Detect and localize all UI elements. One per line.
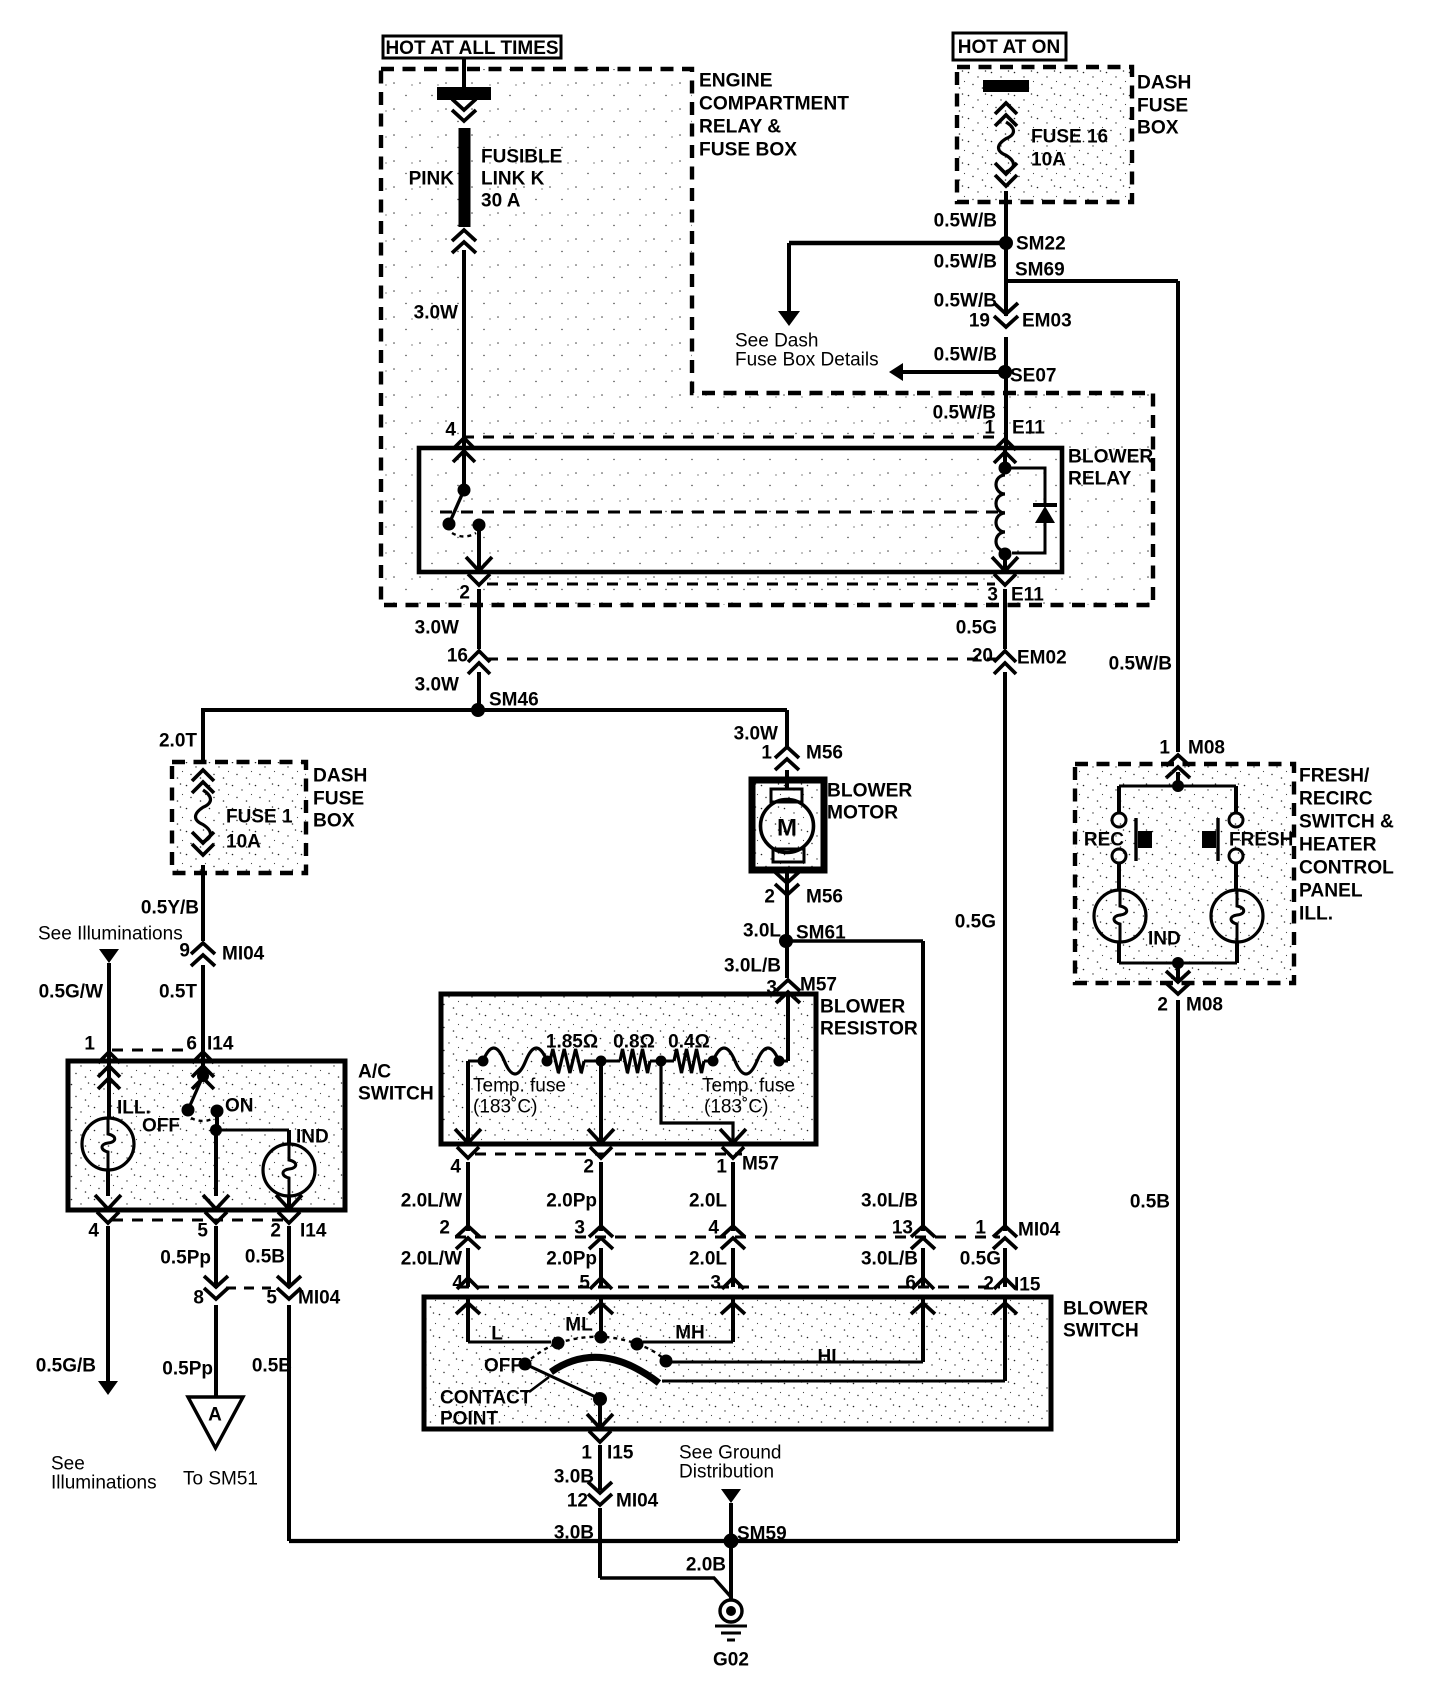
svg-text:Temp. fuse: Temp. fuse [702, 1076, 795, 1097]
A/C switch contact [182, 1070, 224, 1121]
label BLOWER MOTOR [827, 781, 912, 824]
E11 pins 2-3 dashed line [487, 583, 995, 586]
svg-text:RESISTOR: RESISTOR [820, 1019, 918, 1040]
label ML [565, 1315, 593, 1336]
svg-text:2.0L/W: 2.0L/W [401, 1249, 462, 1270]
svg-text:RELAY: RELAY [1068, 469, 1131, 490]
L position wire [468, 1297, 565, 1350]
FRESH indicator lamp [1211, 890, 1263, 942]
label 0.5W/B [934, 291, 997, 312]
wire SM22 to SM69 [1004, 243, 1008, 281]
wire 0.5W/B SM69 to M08 pin1 [1176, 281, 1180, 752]
svg-text:SWITCH &: SWITCH & [1299, 812, 1394, 833]
label 0.5W/B [1109, 654, 1172, 675]
wire into switch and top junction [1119, 772, 1236, 792]
wiper common link to pin1 [525, 1364, 607, 1429]
svg-text:1: 1 [975, 1218, 986, 1239]
connector I14 pins 1,6 [84, 1034, 233, 1063]
svg-text:MH: MH [675, 1323, 705, 1344]
svg-text:1: 1 [761, 743, 772, 764]
svg-text:MI04: MI04 [1018, 1220, 1061, 1241]
svg-text:SE07: SE07 [1010, 366, 1056, 387]
label 3.0B [554, 1467, 594, 1488]
engine compartment relay &amp; fuse box enclosure [381, 69, 1153, 605]
label 0.5G [956, 618, 997, 639]
wire 3.0W relay pin2 to EM02 pin16 [477, 589, 481, 649]
wires M57 to MI04 [468, 1162, 733, 1231]
svg-text:I14: I14 [300, 1221, 327, 1242]
svg-text:2.0L: 2.0L [689, 1191, 727, 1212]
resistor pin3 riser [779, 994, 788, 1061]
connector M08 pin1 [1159, 738, 1225, 778]
label FUSIBLE LINK K 30 A [481, 147, 562, 212]
svg-text:ENGINE: ENGINE [699, 71, 773, 92]
connector MI04 pins 8,5 [193, 1276, 340, 1309]
resistor 0.8 ohm [601, 1060, 620, 1063]
connector MI04 pins 2,3,4,13,1 [439, 1218, 1060, 1249]
svg-text:30 A: 30 A [481, 191, 521, 212]
REC pushbutton actuator [1136, 818, 1152, 861]
left pin4 drop [468, 1061, 483, 1144]
svg-text:16: 16 [447, 646, 468, 667]
svg-text:L: L [491, 1324, 503, 1345]
chevrons above box bottom [995, 163, 1017, 186]
svg-text:0.5W/B: 0.5W/B [934, 291, 997, 312]
svg-text:0.5G/B: 0.5G/B [36, 1356, 96, 1377]
label 2.0T [159, 731, 197, 752]
svg-text:FRESH: FRESH [1229, 830, 1293, 851]
svg-text:3.0W: 3.0W [415, 618, 459, 639]
connector EM02 pin20 [972, 646, 1067, 674]
svg-text:Illuminations: Illuminations [51, 1473, 157, 1494]
note See Dash Fuse Box Details [735, 331, 879, 371]
wire 0.5G relay pin3 to EM02 pin20 [1003, 589, 1007, 649]
wire 3.0W SM46 to M56 pin1 [785, 710, 789, 748]
relay clamp diode [1005, 468, 1057, 553]
wire fuse16 to SM22 [1004, 191, 1008, 243]
connector M56 pin1 [761, 743, 843, 770]
label PINK [409, 169, 455, 190]
FRESH switch branch [1229, 786, 1243, 890]
resistor exit arrows pins 4,2,1 [455, 1129, 746, 1158]
ML position wire [595, 1297, 608, 1344]
svg-text:BOX: BOX [313, 811, 355, 832]
wire 3.0B to MI04 pin12 [598, 1445, 602, 1490]
svg-text:MOTOR: MOTOR [827, 803, 898, 824]
relay pin3 exit [992, 554, 1018, 585]
svg-text:2: 2 [459, 583, 470, 604]
label 3.0L [743, 921, 781, 942]
svg-text:OFF: OFF [142, 1116, 180, 1137]
svg-text:SM22: SM22 [1016, 234, 1066, 255]
svg-text:BLOWER: BLOWER [827, 781, 912, 802]
label 0.5T [159, 982, 197, 1003]
svg-text:0.5T: 0.5T [159, 982, 197, 1003]
svg-text:PINK: PINK [409, 169, 455, 190]
svg-text:5: 5 [266, 1288, 277, 1309]
node pin2 drop [596, 1056, 607, 1145]
svg-text:CONTROL: CONTROL [1299, 858, 1394, 879]
wire 3.0W EM02 to SM46 [477, 672, 481, 710]
svg-text:SM59: SM59 [737, 1524, 787, 1545]
HOT AT ALL TIMES banner [383, 36, 561, 59]
common feed wire from pin2 [662, 1297, 1005, 1381]
svg-text:0.8Ω: 0.8Ω [613, 1032, 655, 1053]
svg-text:19: 19 [969, 311, 990, 332]
wire 0.5B pin2 to MI04 pin5 [287, 1226, 291, 1288]
svg-text:0.5W/B: 0.5W/B [934, 252, 997, 273]
svg-text:I14: I14 [207, 1034, 234, 1055]
note See Illuminations (bottom) [51, 1454, 157, 1494]
label 0.5Y/B [141, 898, 199, 919]
MH position wire [631, 1297, 734, 1351]
fresh/recirc switch dashed box [1075, 764, 1294, 983]
wire 0.5B MI04 pin5 to ground bus [287, 1305, 291, 1541]
label 0.5W/B [934, 345, 997, 366]
wire from banner to supply bar [462, 58, 466, 88]
svg-text:2.0Pp: 2.0Pp [546, 1191, 597, 1212]
wire to node 2 [584, 1060, 601, 1063]
svg-text:3.0W: 3.0W [415, 675, 459, 696]
FRESH pushbutton actuator [1202, 818, 1218, 861]
svg-text:POINT: POINT [440, 1409, 498, 1430]
label REC [1084, 830, 1124, 851]
blower relay box [419, 448, 1062, 572]
svg-text:DASH: DASH [313, 766, 367, 787]
svg-text:6: 6 [186, 1034, 197, 1055]
svg-text:E11: E11 [1011, 585, 1044, 606]
wiper arc [551, 1357, 659, 1383]
svg-text:2: 2 [270, 1221, 281, 1242]
svg-text:0.5W/B: 0.5W/B [934, 211, 997, 232]
fuse 1 element [192, 770, 214, 855]
svg-text:SM46: SM46 [489, 690, 539, 711]
temp fuse 1 [478, 1048, 553, 1074]
wire 0.5Pp MI04 to A connector [214, 1305, 218, 1397]
label 3.0L/B [724, 956, 781, 977]
node SM46 and distribution wire [201, 690, 787, 717]
svg-text:MI04: MI04 [616, 1491, 659, 1512]
svg-text:FUSE BOX: FUSE BOX [699, 140, 797, 161]
svg-text:ML: ML [565, 1315, 593, 1336]
svg-text:2: 2 [764, 887, 775, 908]
svg-text:M57: M57 [742, 1154, 779, 1175]
svg-text:MI04: MI04 [222, 944, 265, 965]
svg-text:3.0L/B: 3.0L/B [861, 1249, 918, 1270]
label FUSE 16 10A [1031, 127, 1108, 171]
label 3.0W [734, 724, 778, 745]
node SM59 [724, 1524, 787, 1549]
connector I15 pins 4,5,3,6,2 [452, 1273, 1040, 1296]
labels 2.0L/W 2.0Pp 2.0L 3.0L/B [401, 1191, 918, 1212]
svg-text:HEATER: HEATER [1299, 835, 1377, 856]
REC switch branch [1112, 786, 1126, 890]
svg-text:(183˚C): (183˚C) [473, 1097, 537, 1118]
svg-text:FUSE 16: FUSE 16 [1031, 127, 1108, 148]
svg-text:M08: M08 [1188, 738, 1225, 759]
A/C switch box [68, 1061, 345, 1210]
label 3.0W [415, 675, 459, 696]
svg-text:RELAY &: RELAY & [699, 117, 781, 138]
connector EM02 pin16 [447, 646, 490, 674]
svg-text:0.5G: 0.5G [955, 912, 996, 933]
arrow from illuminations [99, 949, 119, 1061]
svg-text:4: 4 [450, 1157, 461, 1178]
wire 0.5G/B pin4 to see illuminations [98, 1226, 118, 1395]
svg-text:BLOWER: BLOWER [1068, 447, 1153, 468]
wire into blower motor [785, 770, 789, 790]
chevrons under bar [995, 103, 1017, 126]
label BLOWER SWITCH [1063, 1299, 1148, 1342]
relay switch contact [443, 448, 486, 572]
connector MI04 pin12 [567, 1482, 659, 1512]
svg-text:0.5W/B: 0.5W/B [1109, 654, 1172, 675]
E11 pin 1 connector [984, 418, 1045, 463]
label DASH FUSE BOX (left) [313, 766, 367, 832]
svg-text:1: 1 [1159, 738, 1170, 759]
svg-text:Temp. fuse: Temp. fuse [473, 1076, 566, 1097]
svg-text:0.5Y/B: 0.5Y/B [141, 898, 199, 919]
ground bus wire [289, 1539, 1178, 1543]
svg-text:EM02: EM02 [1017, 648, 1067, 669]
label 0.5G [955, 912, 996, 933]
svg-text:20: 20 [972, 646, 993, 667]
wire 0.5Pp pin5 to MI04 pin8 [214, 1226, 218, 1288]
wire 0.5B M08 to ground bus [1176, 1000, 1180, 1541]
bottom junction and exit [1119, 942, 1237, 983]
svg-text:HI: HI [818, 1347, 837, 1368]
svg-text:IND: IND [296, 1127, 329, 1148]
svg-text:1: 1 [716, 1157, 727, 1178]
pin6 entry chevrons [192, 1061, 214, 1089]
svg-text:BLOWER: BLOWER [1063, 1299, 1148, 1320]
svg-text:3.0L/B: 3.0L/B [724, 956, 781, 977]
svg-text:0.5W/B: 0.5W/B [934, 345, 997, 366]
svg-text:13: 13 [892, 1218, 913, 1239]
label 0.5Pp [160, 1248, 211, 1269]
label Temp. fuse (183C) right [702, 1076, 795, 1118]
svg-text:1: 1 [984, 418, 995, 439]
label FUSE 1 10A [226, 807, 293, 853]
svg-text:OFF: OFF [484, 1356, 522, 1377]
label 3.0W [415, 618, 459, 639]
wire 3.0W fusible link to relay pin 4 [462, 250, 466, 450]
wire motor to M56 pin2 [785, 870, 789, 906]
note To SM51 [183, 1469, 258, 1490]
labels OFF ON [142, 1096, 254, 1137]
label DASH FUSE BOX (right) [1137, 73, 1191, 139]
svg-text:0.5B: 0.5B [252, 1356, 292, 1377]
label 0.5B [252, 1356, 292, 1377]
svg-text:0.4Ω: 0.4Ω [668, 1032, 710, 1053]
svg-text:0.5G/W: 0.5G/W [39, 982, 103, 1003]
blower resistor box [441, 994, 816, 1144]
svg-text:2: 2 [1157, 995, 1168, 1016]
svg-text:4: 4 [88, 1221, 99, 1242]
svg-text:HOT AT ALL TIMES: HOT AT ALL TIMES [385, 38, 558, 59]
svg-text:M08: M08 [1186, 995, 1223, 1016]
label FRESH [1229, 830, 1293, 851]
svg-text:See Dash: See Dash [735, 331, 818, 352]
E11 connector dashed line pins 1-4 [463, 436, 995, 439]
label 0.5B [245, 1247, 285, 1268]
fusible link K bar [459, 128, 471, 227]
svg-text:M: M [777, 814, 797, 841]
svg-text:See Ground: See Ground [679, 1443, 781, 1464]
svg-text:LINK K: LINK K [481, 169, 545, 190]
node SE07 with arrow branch [889, 363, 1056, 387]
EM02 dashed connector line [487, 658, 1000, 661]
wire EM03 to SE07 [1004, 337, 1008, 372]
wire 2.0T SM46 to dash fuse box [201, 710, 205, 762]
svg-text:10A: 10A [1031, 150, 1066, 171]
svg-text:CONTACT: CONTACT [440, 1388, 532, 1409]
connector I14 pins 4,5,2 [88, 1220, 326, 1242]
svg-text:3: 3 [987, 585, 998, 606]
label 3.0W [414, 303, 458, 324]
resistor 1.85 ohm [550, 1049, 584, 1073]
connector M57 pins 4,2,1 [450, 1154, 779, 1178]
wire 3.0B MI04 to ground run [598, 1508, 602, 1578]
svg-text:FUSE: FUSE [313, 789, 364, 810]
connector M08 pin2 [1157, 971, 1223, 1016]
REC indicator lamp [1094, 890, 1146, 942]
svg-text:HOT AT ON: HOT AT ON [958, 37, 1060, 58]
pin1 entry chevrons [98, 1061, 120, 1118]
supply bar in dash fuse box [983, 80, 1029, 92]
svg-text:(183˚C): (183˚C) [704, 1097, 768, 1118]
svg-text:FUSE 1: FUSE 1 [226, 807, 293, 828]
svg-text:E11: E11 [1012, 418, 1045, 439]
label G02 [713, 1650, 749, 1671]
OFF contact and dashed travel arc [519, 1337, 667, 1371]
svg-text:SWITCH: SWITCH [1063, 1321, 1139, 1342]
labels 2.0L/W 2.0Pp 2.0L 3.0L/B 0.5G [401, 1249, 1001, 1270]
svg-text:0.5G: 0.5G [960, 1249, 1001, 1270]
blower switch box [424, 1297, 1051, 1429]
wire 0.5T MI04 to I14 pin6 [201, 965, 205, 1061]
node SM22 [999, 234, 1066, 255]
contact point callout [440, 1377, 549, 1430]
svg-text:3.0W: 3.0W [734, 724, 778, 745]
svg-text:10A: 10A [226, 832, 261, 853]
svg-text:BLOWER: BLOWER [820, 997, 905, 1018]
svg-text:12: 12 [567, 1491, 588, 1512]
connector chevrons below fusible link [452, 230, 476, 253]
connector M56 pin2 [764, 872, 843, 908]
label HI [818, 1347, 837, 1368]
triangle connector A to SM51 [188, 1397, 243, 1448]
label 0.5B [1130, 1192, 1170, 1213]
label ENGINE COMPARTMENT RELAY &amp; FUSE BOX [699, 71, 849, 161]
svg-text:2: 2 [983, 1274, 994, 1295]
node pin1 drop with step [650, 1056, 733, 1145]
svg-text:FUSE: FUSE [1137, 96, 1188, 117]
connector chevrons below bar [452, 99, 476, 121]
connector E11 pin4 chevrons [453, 438, 475, 462]
svg-text:G02: G02 [713, 1650, 749, 1671]
connector MI04 pin9 [179, 941, 264, 966]
svg-text:8: 8 [193, 1288, 204, 1309]
wire ON contact to pin5 and IND branch [210, 1111, 289, 1196]
switch pin entry chevrons [456, 1303, 1017, 1314]
svg-text:REC: REC [1084, 830, 1124, 851]
ILL lamp [82, 1098, 151, 1196]
svg-text:SM69: SM69 [1015, 260, 1065, 281]
svg-text:1.85Ω: 1.85Ω [546, 1032, 598, 1053]
svg-text:5: 5 [197, 1221, 208, 1242]
wire 3.0B run to ground point [600, 1578, 731, 1597]
wire branch to see dash fuse box details [789, 243, 1006, 312]
HOT AT ON banner [953, 33, 1066, 60]
svg-text:M56: M56 [806, 887, 843, 908]
relay internal dashed divider [440, 511, 1000, 514]
svg-text:3.0L/B: 3.0L/B [861, 1191, 918, 1212]
label FRESH/RECIRC SWITCH &amp; HEATER CONTROL PANEL ILL. [1299, 766, 1394, 925]
svg-text:A/C: A/C [358, 1062, 391, 1083]
dash fuse box (FUSE 1) [172, 762, 306, 873]
wire SM59 to ground [729, 1541, 733, 1600]
svg-text:A: A [208, 1405, 222, 1426]
svg-text:3.0B: 3.0B [554, 1467, 594, 1488]
label OFF [484, 1356, 522, 1377]
connector EM03 pin 19 [969, 303, 1072, 332]
svg-text:See: See [51, 1454, 85, 1475]
svg-text:ILL.: ILL. [1299, 904, 1333, 925]
label IND [1148, 929, 1181, 950]
pin 4 label [445, 420, 456, 441]
svg-text:1: 1 [581, 1443, 592, 1464]
label 0.5W/B [933, 403, 996, 424]
svg-text:FUSIBLE: FUSIBLE [481, 147, 562, 168]
svg-text:RECIRC: RECIRC [1299, 789, 1373, 810]
node SM61 and branch [779, 906, 923, 978]
relay coil [996, 448, 1012, 561]
svg-text:0.5B: 0.5B [1130, 1192, 1170, 1213]
fuse 16 element [999, 122, 1014, 172]
blower motor [752, 780, 824, 870]
wires MI04 to I15 [468, 1248, 1005, 1287]
svg-text:I15: I15 [1014, 1275, 1041, 1296]
svg-text:3: 3 [710, 1273, 721, 1294]
svg-text:0.5G: 0.5G [956, 618, 997, 639]
svg-text:To SM51: To SM51 [183, 1469, 258, 1490]
svg-text:4: 4 [708, 1218, 719, 1239]
svg-text:0.5Pp: 0.5Pp [162, 1359, 213, 1380]
svg-text:IND: IND [1148, 929, 1181, 950]
svg-text:MI04: MI04 [298, 1288, 341, 1309]
svg-text:BOX: BOX [1137, 118, 1179, 139]
svg-text:2.0T: 2.0T [159, 731, 197, 752]
svg-text:2: 2 [439, 1218, 450, 1239]
temp fuse 2 [704, 1048, 785, 1074]
label 0.5G/B [36, 1356, 96, 1377]
svg-text:2.0L: 2.0L [689, 1249, 727, 1270]
svg-text:Distribution: Distribution [679, 1462, 774, 1483]
wire 0.5G down to MI04 pin1 [1003, 672, 1007, 1231]
svg-text:ILL.: ILL. [117, 1098, 151, 1119]
svg-text:ON: ON [225, 1096, 254, 1117]
svg-text:FRESH/: FRESH/ [1299, 766, 1370, 787]
supply bus bar [437, 87, 491, 100]
svg-text:0.5Pp: 0.5Pp [160, 1248, 211, 1269]
label BLOWER RELAY [1068, 447, 1153, 490]
svg-text:1: 1 [84, 1034, 95, 1055]
label A/C SWITCH [358, 1062, 434, 1105]
svg-text:See Illuminations: See Illuminations [38, 924, 183, 945]
svg-text:4: 4 [445, 420, 456, 441]
label Temp. fuse (183C) left [473, 1076, 566, 1118]
